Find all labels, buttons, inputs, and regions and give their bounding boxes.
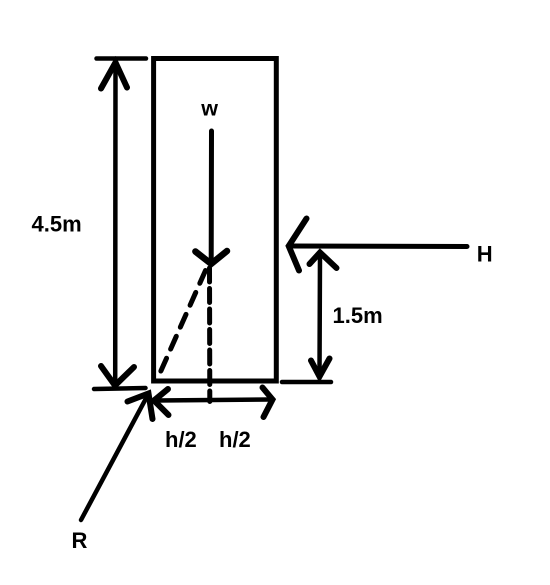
svg-text:1.5m: 1.5m: [333, 303, 383, 328]
4.5m top arrowhead: [101, 63, 127, 89]
R reaction arrow shaft: [81, 397, 147, 521]
svg-text:h/2: h/2: [219, 427, 251, 452]
W weight arrowhead: [195, 251, 227, 264]
4.5m dimension top tick: [97, 56, 147, 61]
1.5m top arrowhead: [310, 253, 337, 269]
svg-text:h/2: h/2: [165, 427, 197, 452]
H force arrowhead: [289, 219, 307, 271]
svg-text:R: R: [72, 528, 88, 553]
h/2 right arrowhead: [263, 388, 273, 418]
1.5m bottom arrowhead: [311, 359, 330, 377]
1.5m bottom tick: [282, 380, 331, 385]
W weight arrow shaft: [209, 131, 214, 259]
svg-text:4.5m: 4.5m: [32, 212, 82, 237]
column rectangle: [154, 59, 277, 382]
4.5m dimension line: [113, 64, 118, 384]
h/2 span arrow shaft: [156, 400, 271, 401]
h/2 left arrowhead: [154, 389, 169, 415]
4.5m bottom tick: [94, 388, 146, 389]
svg-text:w: w: [200, 96, 218, 120]
4.5m bottom arrowhead: [101, 366, 134, 386]
centerline dashed: [207, 268, 212, 402]
H force arrow shaft: [290, 244, 467, 250]
svg-text:H: H: [477, 242, 493, 267]
diagonal dashed: [160, 271, 206, 374]
R reaction arrowhead: [128, 394, 153, 420]
1.5m dimension line: [317, 254, 322, 374]
